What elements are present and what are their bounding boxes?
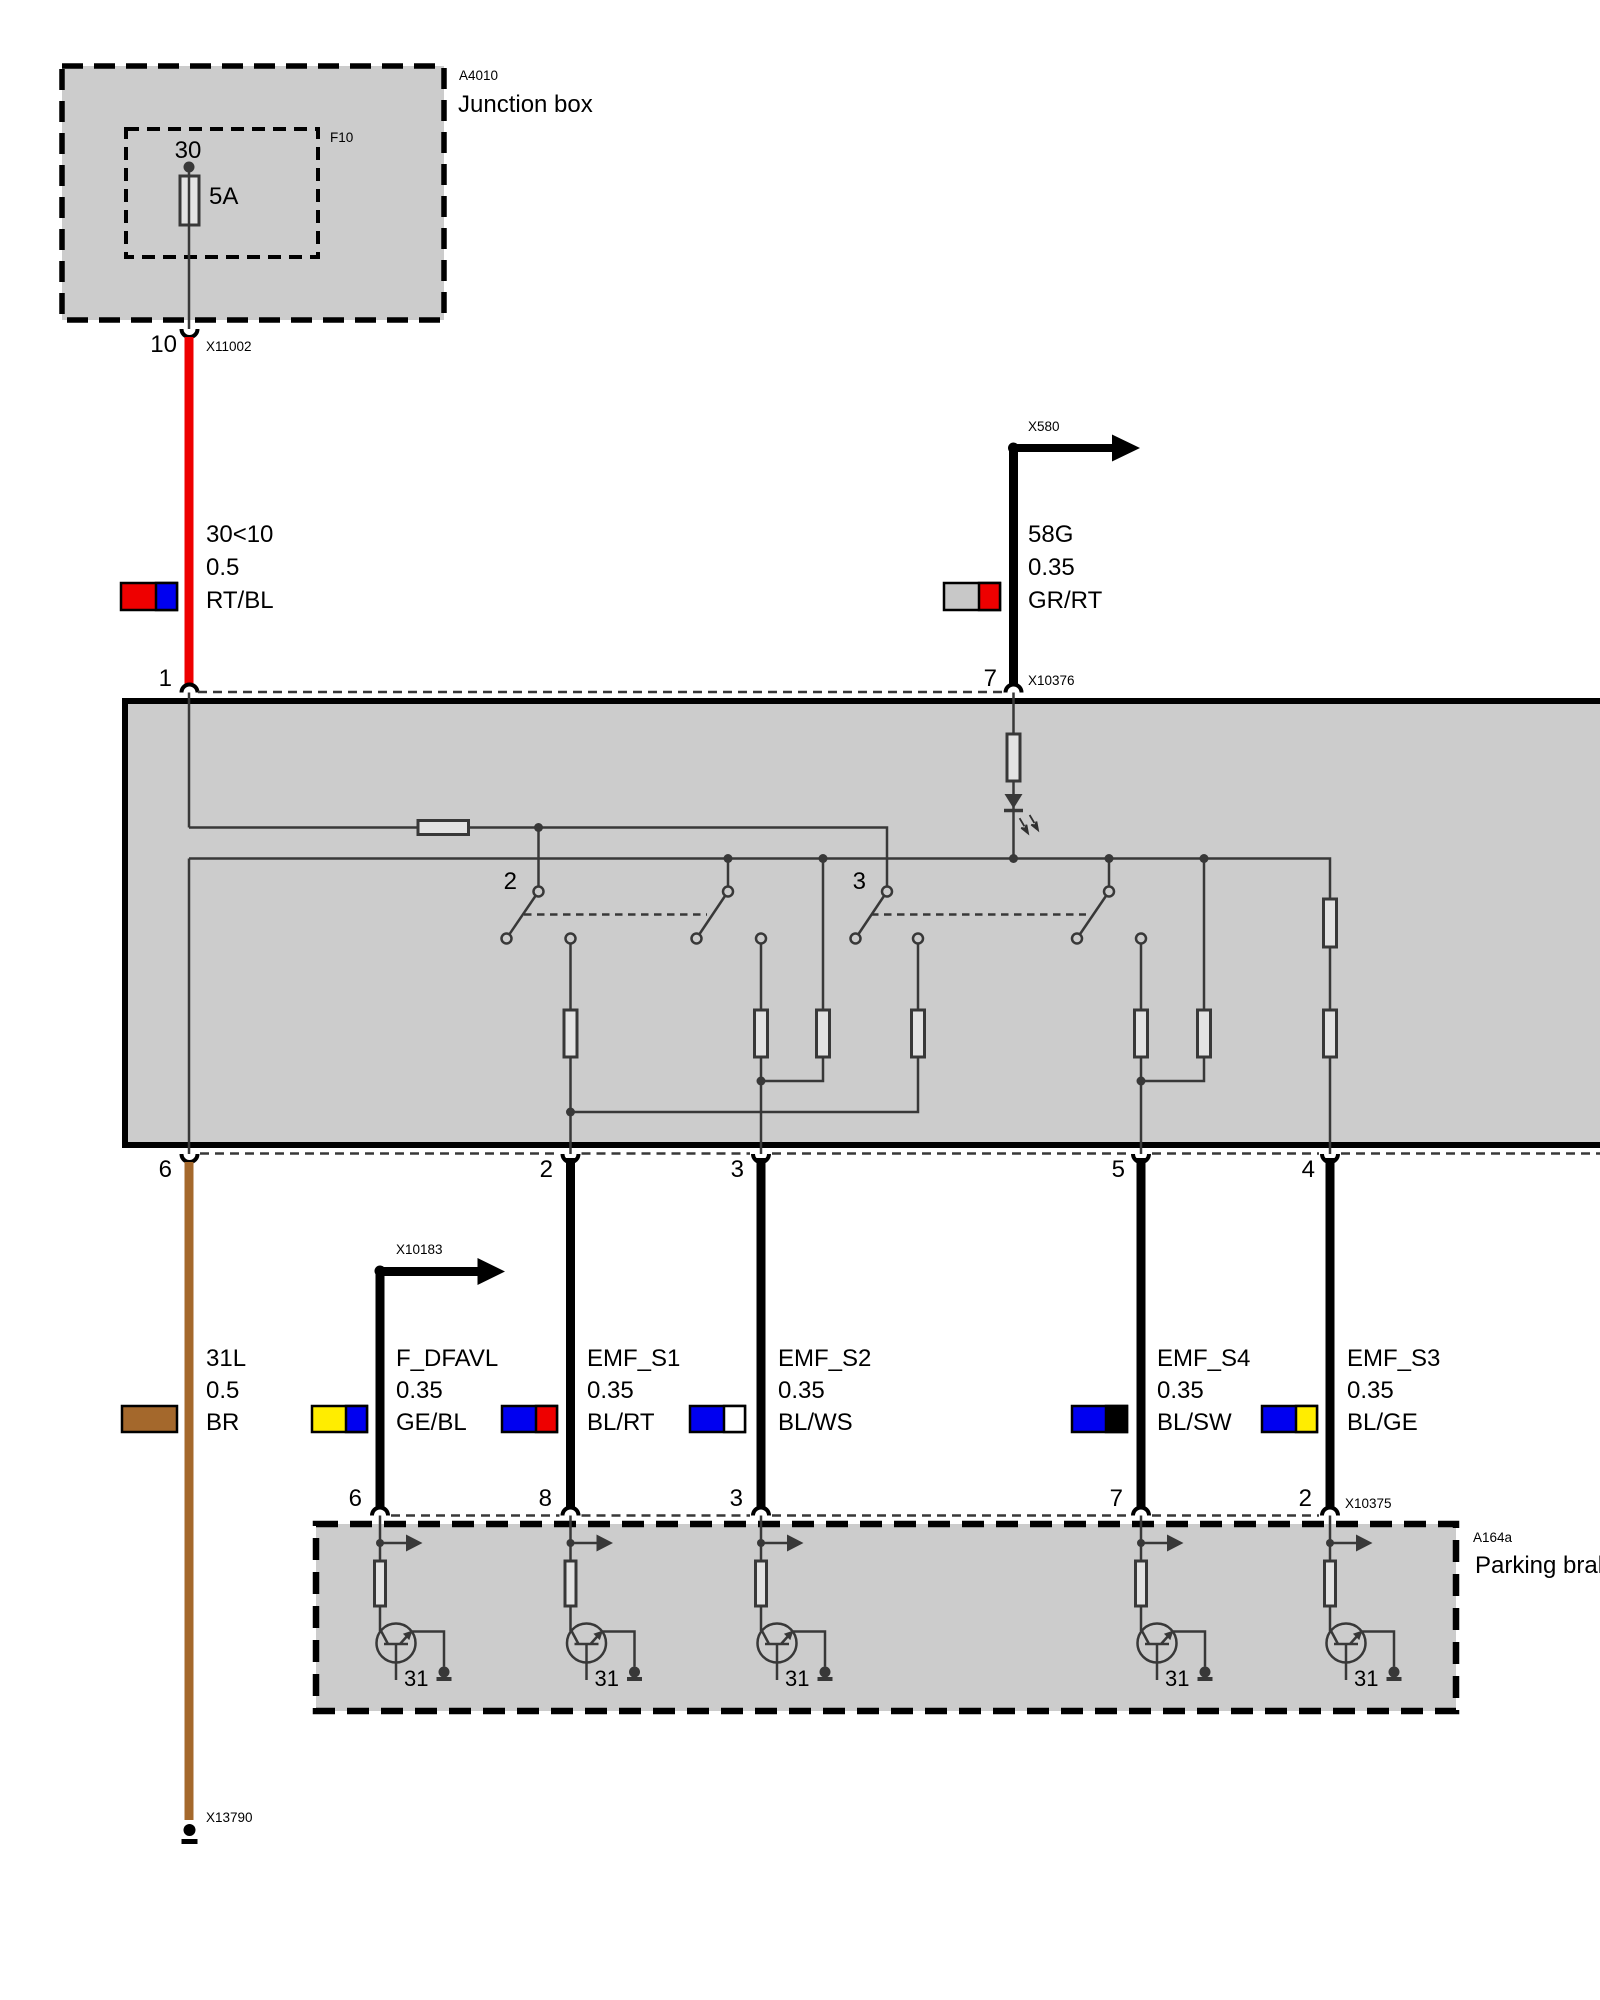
- svg-text:2: 2: [1299, 1485, 1312, 1512]
- transistor Q5: [1327, 1624, 1395, 1681]
- connector pin 5: [1133, 1154, 1149, 1162]
- node rail dot x1109: [1105, 854, 1114, 863]
- ground 31 (channel 2): [627, 1667, 642, 1680]
- svg-text:F_DFAVL: F_DFAVL: [396, 1345, 498, 1372]
- svg-text:GR/RT: GR/RT: [1028, 587, 1103, 614]
- wire F_DFAVL 0.35 GE/BL (black): [376, 1271, 385, 1508]
- wire label EMF_S3 0.35 BL/GE: [1347, 1345, 1440, 1436]
- node rail dot x823: [819, 854, 828, 863]
- switch S3 throw contact a: [851, 934, 861, 944]
- connector A164a pin 7: [1133, 1508, 1149, 1516]
- node channel 1 tap: [376, 1539, 384, 1547]
- svg-text:X13790: X13790: [206, 1810, 253, 1825]
- svg-text:X11002: X11002: [206, 339, 252, 354]
- ground connector X13790: [182, 1824, 198, 1842]
- resistor R5: [912, 1010, 925, 1057]
- svg-text:30<10: 30<10: [206, 521, 273, 548]
- connector X580 dot: [1008, 443, 1019, 454]
- svg-text:A164a: A164a: [1473, 1530, 1513, 1545]
- connector X580 arrow: [1014, 435, 1141, 462]
- color swatch GR/RT: [944, 583, 1000, 610]
- svg-text:EMF_S1: EMF_S1: [587, 1345, 680, 1372]
- svg-text:0.5: 0.5: [206, 1377, 239, 1404]
- switch S4 pivot contact: [1104, 887, 1114, 897]
- ground rail wire: [189, 859, 1330, 1155]
- wire channel 1: [379, 1516, 382, 1632]
- svg-text:BL/WS: BL/WS: [778, 1409, 853, 1436]
- channel 5 (EMF_S3): [1325, 1516, 1402, 1692]
- wire 31L 0.5 BR (brown): [185, 1162, 194, 1820]
- resistor R8: [1198, 1010, 1211, 1057]
- switch S4 throw contact b: [1136, 934, 1146, 944]
- connector row dashed (top): [198, 691, 1005, 694]
- connector row dashed (X10375): [391, 1514, 1319, 1517]
- resistor channel 2: [565, 1561, 576, 1606]
- switch S4 pivot wire: [1108, 859, 1111, 889]
- connector X10376 pin 7: [1006, 685, 1022, 693]
- channel 3 (EMF_S2): [756, 1516, 833, 1692]
- resistor R6: [817, 1010, 830, 1057]
- switch S3 lever: [856, 892, 888, 939]
- svg-text:X580: X580: [1028, 419, 1060, 434]
- switch S2 lever: [697, 892, 729, 939]
- wire channel 3: [760, 1516, 763, 1632]
- arrow channel 1: [380, 1535, 423, 1552]
- svg-text:EMF_S2: EMF_S2: [778, 1345, 871, 1372]
- node 30 dot: [184, 162, 195, 173]
- wire S1 contact to pin 2: [569, 944, 572, 1155]
- svg-text:0.5: 0.5: [206, 554, 239, 581]
- junction box A4010: [62, 66, 444, 320]
- resistor R3: [564, 1010, 577, 1057]
- connector pin 4: [1322, 1154, 1338, 1162]
- color swatch BR: [122, 1406, 177, 1432]
- wire EMF_S1 0.35 BL/RT (black): [566, 1158, 575, 1508]
- node channel 2 tap: [567, 1539, 575, 1547]
- node channel 5 tap: [1326, 1539, 1334, 1547]
- wire pin 1 to top rail: [188, 693, 191, 828]
- svg-text:6: 6: [349, 1485, 362, 1512]
- svg-text:31: 31: [785, 1666, 809, 1691]
- wire 58G 0.35 GR/RT (black): [1009, 448, 1018, 686]
- svg-text:RT/BL: RT/BL: [206, 587, 274, 614]
- connector pin 3: [753, 1154, 769, 1162]
- wire R5 link: [571, 944, 919, 1113]
- switch S3 pivot contact: [882, 887, 892, 897]
- switch coupling dashed link: [524, 913, 1086, 916]
- node rail dot x1204: [1200, 854, 1209, 863]
- channel 4 (EMF_S4): [1136, 1516, 1213, 1692]
- svg-text:8: 8: [539, 1485, 552, 1512]
- wire pin 7 to LED: [1012, 693, 1015, 859]
- svg-text:BR: BR: [206, 1409, 239, 1436]
- svg-text:0.35: 0.35: [1347, 1377, 1394, 1404]
- resistor channel 4: [1136, 1561, 1147, 1606]
- svg-text:31: 31: [1354, 1666, 1378, 1691]
- connector row dashed (switch unit bottom): [200, 1152, 1600, 1155]
- resistor R4: [755, 1010, 768, 1057]
- svg-text:30: 30: [175, 137, 202, 164]
- wire EMF_S2 0.35 BL/WS (black): [757, 1158, 766, 1508]
- wire pin 6 to ground rail: [188, 859, 191, 1155]
- svg-text:58G: 58G: [1028, 521, 1073, 548]
- switch S1 pivot wire: [537, 828, 540, 889]
- svg-text:5A: 5A: [209, 183, 238, 210]
- svg-text:0.35: 0.35: [1028, 554, 1075, 581]
- color swatch BL/WS: [690, 1406, 745, 1432]
- svg-text:2: 2: [540, 1156, 553, 1183]
- svg-text:BL/SW: BL/SW: [1157, 1409, 1232, 1436]
- resistor channel 3: [756, 1561, 767, 1606]
- transistor Q2: [567, 1624, 635, 1681]
- svg-text:3: 3: [853, 868, 866, 895]
- wire EMF_S4 0.35 BL/SW (black): [1137, 1158, 1146, 1508]
- color swatch BL/SW: [1072, 1406, 1127, 1432]
- node top rail / switch 1: [534, 823, 543, 832]
- channel 2 (EMF_S1): [565, 1516, 642, 1692]
- resistor R1 (top rail): [418, 821, 469, 835]
- connector X10183 arrow: [380, 1258, 505, 1285]
- switch S1 pivot contact: [534, 887, 544, 897]
- connector pin 2: [563, 1154, 579, 1162]
- resistor R7: [1135, 1010, 1148, 1057]
- LED D1: [1004, 794, 1038, 833]
- wire node 30 to connector: [188, 167, 191, 329]
- arrow channel 2: [571, 1535, 614, 1552]
- node rail dot x1014: [1009, 854, 1018, 863]
- wire label EMF_S1 0.35 BL/RT: [587, 1345, 680, 1436]
- svg-text:31: 31: [595, 1666, 619, 1691]
- wire channel 2: [569, 1516, 572, 1632]
- svg-text:A4010: A4010: [459, 68, 498, 83]
- connector A164a pin 8: [563, 1508, 579, 1516]
- switch S4 throw contact a: [1072, 934, 1082, 944]
- svg-text:5: 5: [1112, 1156, 1125, 1183]
- node pin5/R8 junction: [1137, 1077, 1146, 1086]
- svg-text:X10375: X10375: [1345, 1496, 1392, 1511]
- svg-text:BL/GE: BL/GE: [1347, 1409, 1418, 1436]
- fuse holder F10: [126, 129, 318, 257]
- wire S4 contact to pin 5: [1140, 944, 1143, 1155]
- svg-text:0.35: 0.35: [1157, 1377, 1204, 1404]
- svg-text:F10: F10: [330, 130, 353, 145]
- svg-text:6: 6: [159, 1156, 172, 1183]
- svg-text:Parking brake: Parking brake: [1475, 1552, 1600, 1579]
- node pin2/R5 junction: [566, 1108, 575, 1117]
- svg-text:EMF_S4: EMF_S4: [1157, 1345, 1250, 1372]
- svg-text:31L: 31L: [206, 1345, 246, 1372]
- switch S2 throw contact b: [756, 934, 766, 944]
- connector X10376 pin 1: [182, 685, 198, 693]
- svg-text:EMF_S3: EMF_S3: [1347, 1345, 1440, 1372]
- wire channel 5: [1329, 1516, 1332, 1632]
- switch S2 pivot contact: [723, 887, 733, 897]
- switch S4 lever: [1077, 892, 1109, 939]
- svg-text:0.35: 0.35: [778, 1377, 825, 1404]
- wire R6 link: [761, 859, 823, 1082]
- svg-text:X10376: X10376: [1028, 673, 1075, 688]
- svg-text:0.35: 0.35: [396, 1377, 443, 1404]
- wire label EMF_S2 0.35 BL/WS: [778, 1345, 871, 1436]
- switch S2 pivot wire: [727, 859, 730, 889]
- resistor channel 5: [1325, 1561, 1336, 1606]
- transistor Q1: [377, 1624, 445, 1681]
- svg-text:31: 31: [1165, 1666, 1189, 1691]
- connector X11002: [182, 329, 198, 337]
- svg-text:3: 3: [730, 1485, 743, 1512]
- wire label 30<10 0.5 RT/BL: [206, 521, 274, 614]
- node channel 3 tap: [757, 1539, 765, 1547]
- ground 31 (channel 4): [1198, 1667, 1213, 1680]
- svg-text:31: 31: [404, 1666, 428, 1691]
- arrow channel 4: [1141, 1535, 1184, 1552]
- svg-text:2: 2: [504, 868, 517, 895]
- switch S1 lever: [507, 892, 539, 939]
- node pin3/R6 junction: [757, 1077, 766, 1086]
- switch S1 throw contact a: [502, 934, 512, 944]
- connector A164a pin 2: [1322, 1508, 1338, 1516]
- wire channel 4: [1140, 1516, 1143, 1632]
- ground 31 (channel 3): [818, 1667, 833, 1680]
- ground 31 (channel 5): [1387, 1667, 1402, 1680]
- node channel 4 tap: [1137, 1539, 1145, 1547]
- svg-text:BL/RT: BL/RT: [587, 1409, 655, 1436]
- svg-text:1: 1: [159, 665, 172, 692]
- svg-text:0.35: 0.35: [587, 1377, 634, 1404]
- svg-text:X10183: X10183: [396, 1242, 443, 1257]
- color swatch RT/BL: [121, 583, 177, 610]
- connector X10183 dot: [375, 1266, 386, 1277]
- arrow channel 5: [1330, 1535, 1373, 1552]
- parking brake module A164a box: [316, 1524, 1456, 1711]
- wire EMF_S3 0.35 BL/GE (black): [1326, 1158, 1335, 1508]
- wire label 58G 0.35 GR/RT: [1028, 521, 1103, 614]
- svg-text:10: 10: [150, 331, 177, 358]
- resistor channel 1: [375, 1561, 386, 1606]
- wire 30<10 0.5 RT/BL (red): [185, 337, 194, 686]
- resistor R10 (pin 4 branch lower): [1324, 1010, 1337, 1057]
- color swatch GE/BL: [312, 1406, 367, 1432]
- wire label 31L 0.5 BR: [206, 1345, 246, 1436]
- wire label F_DFAVL 0.35 GE/BL: [396, 1345, 498, 1436]
- svg-text:Junction box: Junction box: [458, 91, 593, 118]
- transistor Q3: [758, 1624, 826, 1681]
- arrow channel 3: [761, 1535, 804, 1552]
- connector A164a pin 6: [372, 1508, 388, 1516]
- node rail dot x728: [724, 854, 733, 863]
- connector pin 6: [182, 1154, 198, 1162]
- switch S2 throw contact a: [692, 934, 702, 944]
- color swatch BL/RT: [502, 1406, 557, 1432]
- fuse F10 5A: [180, 176, 199, 225]
- switch unit box: [125, 701, 1600, 1145]
- ground 31 (channel 1): [437, 1667, 452, 1680]
- switch S3 throw contact b: [913, 934, 923, 944]
- svg-text:GE/BL: GE/BL: [396, 1409, 467, 1436]
- top rail wire: [189, 828, 887, 887]
- connector A164a pin 3: [753, 1508, 769, 1516]
- resistor R2 (LED branch): [1007, 734, 1020, 781]
- svg-text:4: 4: [1302, 1156, 1315, 1183]
- channel 1 (F_DFAVL): [375, 1516, 452, 1692]
- transistor Q4: [1138, 1624, 1206, 1681]
- svg-text:7: 7: [1110, 1485, 1123, 1512]
- svg-text:3: 3: [731, 1156, 744, 1183]
- color swatch BL/GE: [1262, 1406, 1317, 1432]
- wire S2 contact to pin 3: [760, 944, 763, 1155]
- wire label EMF_S4 0.35 BL/SW: [1157, 1345, 1250, 1436]
- svg-text:7: 7: [984, 665, 997, 692]
- resistor R9 (pin 4 branch upper): [1324, 899, 1337, 947]
- wire R8 link: [1141, 859, 1204, 1082]
- switch S1 throw contact b: [566, 934, 576, 944]
